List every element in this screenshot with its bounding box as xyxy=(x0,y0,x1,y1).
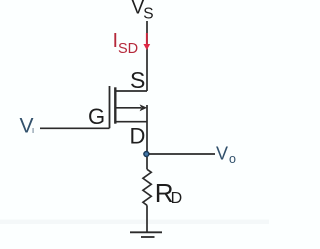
svg-text:I: I xyxy=(32,126,34,135)
svg-text:D: D xyxy=(130,124,146,149)
resistor RD xyxy=(143,157,151,232)
svg-text:D: D xyxy=(171,190,183,207)
transistor M1 xyxy=(110,86,148,128)
node VO label xyxy=(216,144,236,167)
current label ISD xyxy=(113,30,139,57)
node VI label xyxy=(20,114,35,137)
svg-text:S: S xyxy=(130,67,145,93)
current arrow ISD xyxy=(143,33,150,50)
wire xyxy=(149,153,215,155)
wire xyxy=(40,127,110,129)
svg-text:G: G xyxy=(88,104,105,129)
svg-text:SD: SD xyxy=(118,41,138,57)
resistor label RD xyxy=(155,178,182,208)
svg-text:o: o xyxy=(229,152,236,166)
ground xyxy=(130,232,162,237)
wire xyxy=(146,105,148,154)
wire xyxy=(146,21,148,91)
svg-text:V: V xyxy=(216,144,228,164)
svg-text:S: S xyxy=(143,6,153,23)
node output junction xyxy=(144,152,149,157)
